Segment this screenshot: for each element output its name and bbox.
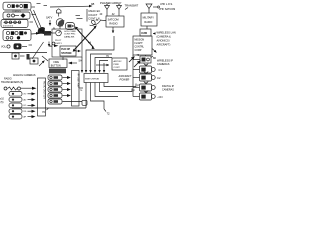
svg-text:FLIGHT: FLIGHT — [135, 43, 144, 45]
svg-text:70: 70 — [42, 110, 45, 114]
uplink glyphs — [48, 42, 50, 47]
antenna A3 — [146, 4, 152, 9]
svg-text:CAMERAS: CAMERAS — [162, 89, 174, 92]
rf distribution strip — [72, 71, 80, 107]
svg-text:CONT PRC: CONT PRC — [64, 34, 76, 36]
svg-text:GCS CORE: GCS CORE — [64, 31, 76, 33]
camera bus wire — [132, 55, 134, 97]
antenna A1 — [105, 6, 110, 10]
payload operator box — [60, 46, 76, 56]
svg-text:ANALOG CAMERAS: ANALOG CAMERAS — [13, 74, 36, 77]
svg-text:DATALINK: DATALINK — [64, 35, 75, 38]
svg-text:78: 78 — [137, 54, 140, 57]
svg-text:VHF SATCOM: VHF SATCOM — [159, 8, 175, 11]
analog cameras callout — [30, 58, 38, 64]
speaker S1 — [12, 53, 19, 59]
svg-text:5E: 5E — [49, 45, 52, 48]
transceiver T2 — [48, 81, 62, 86]
fire button box — [49, 59, 67, 68]
svg-text:5A: 5A — [79, 59, 82, 63]
junction glyph — [82, 100, 87, 105]
audio device row 5 — [9, 114, 22, 119]
svg-text:P: P — [137, 85, 139, 87]
lan wire 1 — [86, 36, 114, 70]
antenna A2 — [117, 6, 122, 10]
antenna power control — [112, 58, 127, 70]
wireless lan label — [153, 33, 156, 35]
svg-text:ANT RC: ANT RC — [114, 60, 123, 63]
svg-text:RADIO: RADIO — [109, 22, 117, 26]
audio digitizer strip — [38, 78, 46, 116]
svg-text:AVIONICS /: AVIONICS / — [157, 38, 171, 42]
rf link wire — [34, 10, 42, 29]
svg-text:TRANSCEIVERS (5): TRANSCEIVERS (5) — [1, 81, 23, 84]
camera CN — [140, 93, 152, 100]
downlink arrow — [152, 49, 157, 53]
svg-text:AIRCRAFT: AIRCRAFT — [118, 74, 132, 78]
lan wire 2 — [91, 54, 113, 70]
svg-text:o o o o o: o o o o o — [3, 25, 14, 28]
remote control unit RC2 — [3, 12, 30, 19]
svg-text:98: 98 — [91, 2, 95, 6]
hub output wire 4 — [91, 83, 105, 110]
camera C3 — [140, 84, 152, 91]
svg-text:VOL: VOL — [1, 46, 7, 49]
transceiver T4 — [48, 93, 62, 98]
svg-text:UHF L.O.S.: UHF L.O.S. — [160, 3, 173, 6]
svg-text:PWR: PWR — [114, 64, 120, 66]
svg-text:BUTTON: BUTTON — [51, 64, 61, 67]
wire to ant power — [96, 64, 109, 66]
camera C1 — [140, 66, 152, 73]
audio device row 4 — [9, 109, 22, 114]
hub output wire 2 — [100, 83, 133, 92]
divider wire — [0, 52, 47, 54]
svg-text:CAMERAS: CAMERAS — [157, 63, 170, 66]
svg-text:72: 72 — [107, 112, 110, 116]
svg-text:(5): (5) — [1, 101, 4, 104]
transceiver T3 — [48, 87, 62, 92]
svg-text:AIRCRAFT): AIRCRAFT) — [157, 42, 171, 46]
audio device row 2 — [9, 97, 22, 102]
feed wire 5 — [103, 63, 105, 70]
svg-text:POWER: POWER — [120, 78, 130, 82]
feed horn icon — [57, 9, 62, 13]
svg-text:COACT: COACT — [88, 13, 97, 17]
wire to GCS — [31, 33, 52, 35]
ground antenna dish — [38, 27, 45, 34]
satcom radio U10 — [106, 16, 124, 27]
svg-text:XO: XO — [24, 94, 27, 96]
mission computer — [133, 36, 152, 55]
svg-text:C2: C2 — [157, 76, 161, 80]
modem M1 — [66, 23, 75, 30]
wire — [32, 6, 36, 8]
svg-text:MILITARY: MILITARY — [143, 16, 155, 19]
gcs drop wire — [81, 57, 83, 70]
svg-text:SATCOM: SATCOM — [108, 18, 119, 22]
wire — [32, 14, 37, 16]
svg-text:42: 42 — [112, 13, 115, 16]
camera hub box 80 — [140, 56, 151, 63]
remote control unit RC3 — [1, 20, 28, 28]
wire — [37, 3, 41, 5]
dish D2 — [56, 19, 64, 27]
svg-text:AP: AP — [24, 115, 27, 118]
control console RC4 — [3, 30, 31, 41]
hub output wire 3 — [95, 83, 118, 97]
svg-text:TRANSMIT: TRANSMIT — [125, 3, 139, 7]
camera C2 — [140, 74, 152, 81]
audio device row 3 — [9, 103, 22, 108]
wire — [44, 5, 48, 7]
svg-text:5L: 5L — [53, 27, 56, 31]
svg-text:WIRELESS LAN: WIRELESS LAN — [157, 31, 176, 35]
svg-text:CONT: CONT — [114, 67, 121, 69]
dial gauge — [56, 30, 62, 36]
hub drop wire — [85, 83, 87, 109]
hub output wire 1 — [104, 83, 136, 87]
svg-text:PHASED ARRAY: PHASED ARRAY — [100, 1, 122, 5]
svg-text:RD: RD — [24, 111, 27, 113]
svg-text:(CAMERA &: (CAMERA & — [157, 35, 172, 39]
svg-text:SATV: SATV — [46, 17, 53, 20]
generator bar — [49, 69, 66, 74]
svg-text:RADIO: RADIO — [144, 21, 152, 24]
switch hub — [84, 74, 108, 83]
svg-text:PLD OP: PLD OP — [61, 48, 70, 51]
svg-text:PLA: PLA — [40, 29, 45, 33]
wire — [30, 21, 34, 23]
gcs lan bracket — [86, 9, 88, 22]
svg-text:DSPLY: DSPLY — [55, 43, 63, 45]
svg-text:SWITCH/HUB: SWITCH/HUB — [85, 78, 99, 80]
svg-text:CONTRL: CONTRL — [135, 46, 145, 48]
svg-text:AUDIO DIGITIZR: AUDIO DIGITIZR — [43, 81, 46, 99]
svg-text:C1: C1 — [159, 68, 163, 72]
gcs enclosure — [52, 29, 82, 57]
svg-text:KO: KO — [24, 105, 27, 107]
svg-text:AO: AO — [24, 98, 27, 101]
rf link arrow pair 2 — [77, 29, 94, 48]
svg-text:STATION: STATION — [61, 52, 71, 55]
c2 processor — [140, 29, 151, 36]
wire — [146, 26, 148, 29]
transceiver T1 — [48, 75, 62, 80]
svg-text:P: P — [133, 90, 135, 92]
rf link wire — [31, 10, 39, 29]
wire — [76, 15, 81, 17]
rf link arrow pair — [75, 28, 96, 50]
svg-text:76: 76 — [80, 90, 83, 92]
svg-text:40: 40 — [100, 13, 103, 16]
audio device row 1 — [9, 92, 22, 97]
transceiver T5 — [48, 99, 62, 104]
lan wire 3 — [95, 58, 112, 71]
antenna arrows — [129, 57, 135, 63]
pointer 98 — [50, 5, 90, 8]
svg-text:RF DIST AMP: RF DIST AMP — [77, 74, 80, 89]
bottom enclosure wire — [12, 107, 86, 109]
audio handset row — [4, 87, 7, 90]
feed wire 4 — [100, 61, 109, 71]
svg-text:MISSION: MISSION — [135, 40, 145, 42]
wire — [76, 50, 81, 52]
svg-text:PILOT: PILOT — [55, 40, 62, 42]
remote control unit RC1 — [3, 2, 31, 10]
military radio U11 — [141, 13, 157, 26]
svg-text:WIRELESS IP: WIRELESS IP — [157, 60, 173, 63]
cable — [32, 42, 44, 59]
feed wire — [112, 27, 114, 33]
svg-text:80: 80 — [153, 56, 156, 60]
svg-text:COMP: COMP — [135, 50, 142, 52]
svg-text:C2D: C2D — [141, 31, 147, 35]
svg-text:~CN: ~CN — [157, 95, 163, 99]
